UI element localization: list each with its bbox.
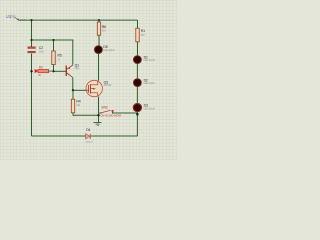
value label C2	[39, 46, 45, 54]
wire: gate wire to Q3	[73, 89, 86, 91]
transistor Q3 (n-mosfet)	[86, 80, 102, 96]
junction: rail / C2 column	[30, 19, 32, 21]
svg-text:SW2: SW2	[101, 105, 108, 109]
svg-text:R5: R5	[58, 54, 62, 58]
svg-text:R1: R1	[141, 29, 145, 33]
value label Q3	[104, 80, 112, 87]
ground	[94, 123, 102, 126]
svg-text:R4: R4	[76, 99, 80, 103]
value label Q1	[75, 63, 80, 70]
value label D5	[103, 45, 115, 52]
LED D1	[134, 56, 142, 64]
resistor R3	[35, 69, 54, 73]
wire: rail corner down to R1	[137, 20, 139, 28]
junction: R5 bottom / base wire	[52, 70, 54, 72]
value label R4	[76, 99, 80, 106]
svg-text:LED-AQUA: LED-AQUA	[144, 82, 156, 85]
diode D4	[86, 134, 91, 139]
svg-text:1N4148: 1N4148	[85, 142, 93, 144]
wire: D3 down to bottom rail corner	[136, 112, 138, 136]
wire: branch to Q1 emitter loop	[32, 40, 73, 65]
wire: R1 to D1	[137, 42, 139, 56]
wire: R5 bottom stub	[53, 65, 55, 72]
junction: R5 stub / branch wire	[52, 39, 54, 41]
switch SW2	[99, 110, 138, 114]
wire: R4 bottom to ground node	[73, 113, 99, 116]
transistor Q1	[66, 65, 73, 78]
wire: Q1 collector down	[72, 78, 74, 91]
resistor R6	[97, 22, 100, 35]
LED D3	[133, 104, 141, 112]
wire: base wire	[54, 70, 66, 72]
value label R1	[141, 29, 145, 37]
junction: C2 column / branch	[30, 39, 32, 41]
resistor R4	[71, 99, 74, 113]
junction: SW2 wire / LED column	[136, 113, 139, 116]
wire: D2 to D3	[136, 87, 138, 104]
wire: top rail	[19, 19, 138, 21]
value label D4	[85, 128, 93, 144]
value label SW2	[100, 105, 121, 117]
svg-text:D4: D4	[86, 128, 90, 132]
junction: rail / R6 column	[98, 19, 100, 21]
svg-text:PNP: PNP	[75, 67, 80, 70]
svg-text:LED-AQUA: LED-AQUA	[144, 59, 156, 62]
svg-text:R3: R3	[39, 66, 43, 70]
wire: R6 top stub	[98, 20, 100, 22]
svg-text:100n: 100n	[39, 51, 45, 54]
schematic background grid	[0, 0, 177, 160]
LED D2	[134, 79, 142, 87]
junction: source / R4 wire / ground	[97, 114, 99, 116]
wire: bottom rail	[32, 135, 138, 137]
svg-text:U3(A): U3(A)	[6, 14, 17, 19]
LED D5	[95, 46, 103, 54]
wire: left vertical (node A column)	[31, 20, 33, 47]
wire: D5 to Q3 drain	[98, 54, 100, 81]
value label D2	[144, 78, 156, 85]
svg-text:C2: C2	[39, 46, 43, 50]
resistor R5	[52, 51, 55, 65]
wire: R4 top stub	[72, 90, 74, 99]
value label R3	[38, 66, 43, 77]
value label R6	[102, 25, 106, 33]
svg-text:R6: R6	[102, 25, 106, 29]
wire: Q3 source down	[98, 97, 100, 122]
net origin label U3(A)	[6, 14, 26, 22]
value label D3	[144, 103, 156, 110]
junction: collector / gate / R4	[72, 89, 74, 91]
value label D1	[144, 55, 156, 62]
wire: R6 bottom to D5	[98, 35, 100, 45]
svg-text:LED-AQUA: LED-AQUA	[103, 49, 115, 52]
wire: D1 to D2	[136, 64, 138, 79]
svg-text:2N7000: 2N7000	[104, 84, 112, 87]
capacitor C2	[28, 47, 36, 53]
junction: left column / R3	[30, 70, 32, 72]
svg-text:ON-NC/NO-MOM: ON-NC/NO-MOM	[100, 113, 121, 117]
resistor R1	[136, 28, 139, 42]
svg-text:LED-AQUA: LED-AQUA	[144, 107, 156, 110]
value label R5	[58, 54, 62, 62]
wire: R5 top stub	[53, 40, 55, 51]
